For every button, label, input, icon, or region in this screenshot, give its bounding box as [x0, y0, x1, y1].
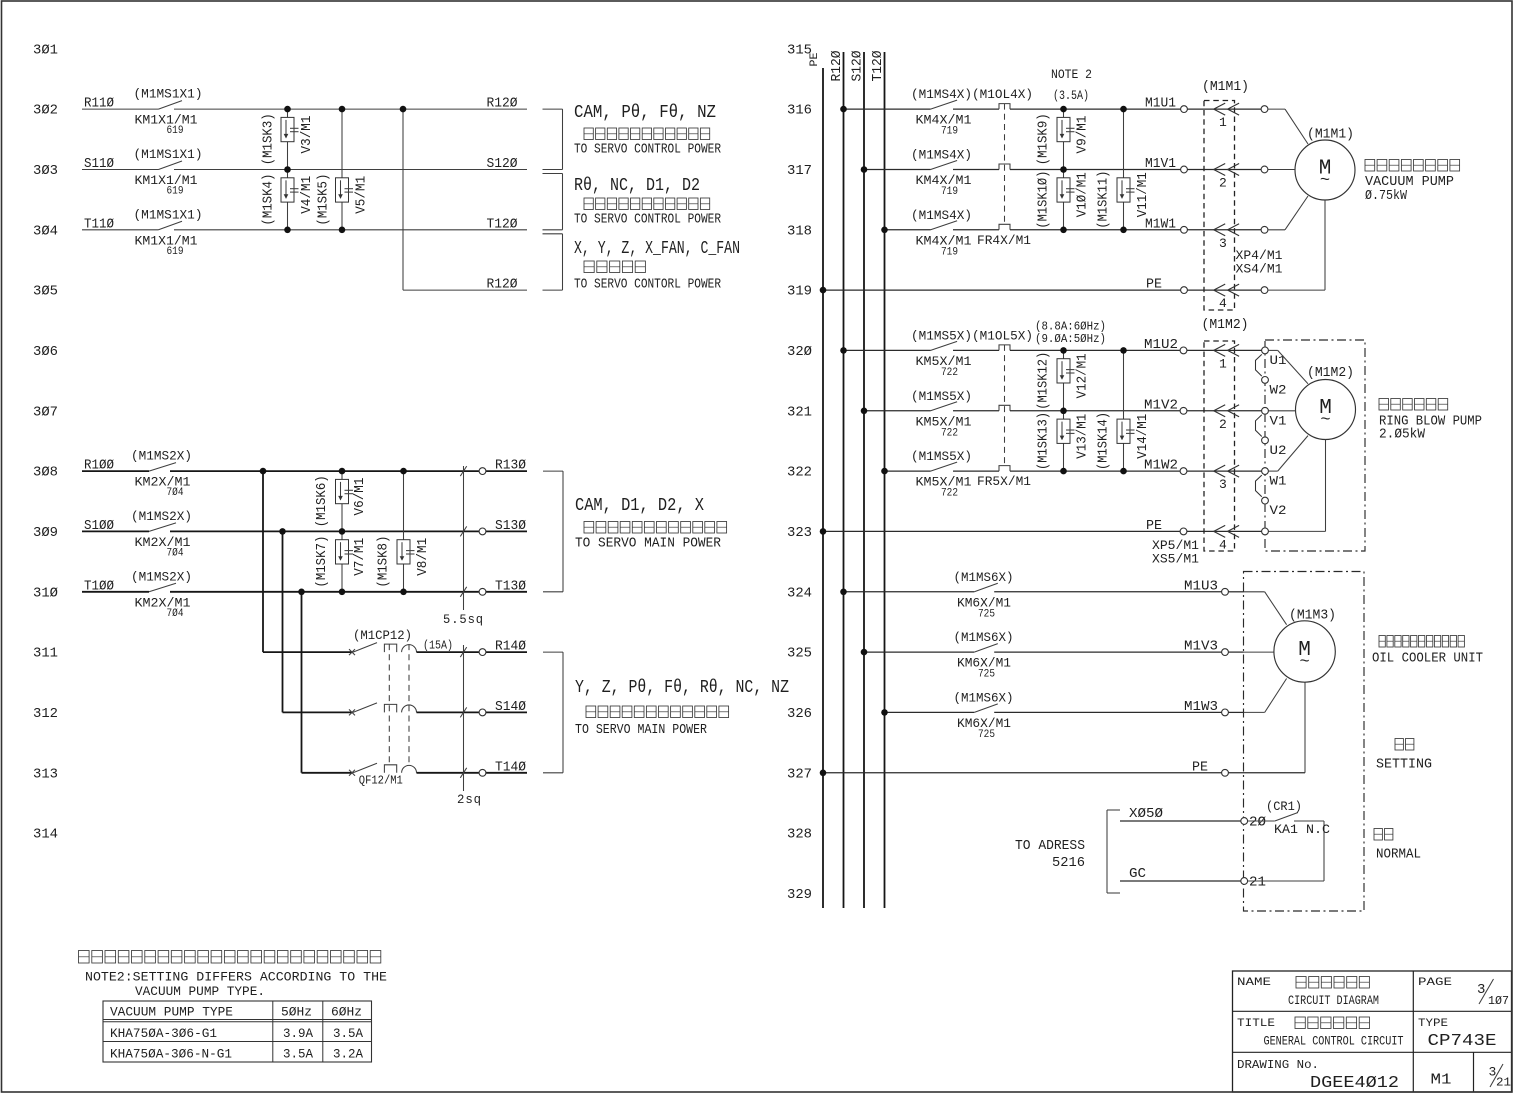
svg-text:CP743E: CP743E	[1428, 1031, 1497, 1050]
svg-text:TO SERVO CONTROL POWER: TO SERVO CONTROL POWER	[574, 143, 721, 158]
svg-text:(M1SK6): (M1SK6)	[315, 475, 330, 527]
svg-text:Ø.75kW: Ø.75kW	[1365, 189, 1408, 204]
svg-text:Y, Z, Pθ, Fθ, Rθ, NC, NZ: Y, Z, Pθ, Fθ, Rθ, NC, NZ	[575, 678, 789, 698]
svg-text:DGEE4Ø12: DGEE4Ø12	[1310, 1073, 1399, 1092]
svg-text:NOTE 2: NOTE 2	[1051, 67, 1092, 82]
svg-text:319: 319	[787, 284, 812, 300]
svg-text:VACUUM PUMP TYPE: VACUUM PUMP TYPE	[110, 1005, 233, 1020]
svg-text:TO SERVO CONTORL POWER: TO SERVO CONTORL POWER	[574, 278, 721, 293]
svg-text:(M1MS4X): (M1MS4X)	[911, 87, 972, 102]
svg-text:327: 327	[787, 766, 812, 782]
svg-text:(M1OL4X): (M1OL4X)	[972, 87, 1033, 102]
svg-text:3Ø2: 3Ø2	[33, 103, 58, 119]
svg-text:(M1MS5X): (M1MS5X)	[911, 328, 972, 343]
svg-text:318: 318	[787, 223, 812, 239]
svg-text:(M1SK4): (M1SK4)	[262, 174, 277, 226]
svg-text:21: 21	[1496, 1076, 1511, 1090]
svg-text:Rθ, NC, D1, D2: Rθ, NC, D1, D2	[574, 176, 700, 196]
svg-text:(M1SK12): (M1SK12)	[1037, 352, 1052, 410]
svg-text:324: 324	[787, 585, 812, 601]
svg-text:3Ø5: 3Ø5	[33, 284, 58, 300]
svg-text:3.5A: 3.5A	[283, 1046, 313, 1061]
svg-text:VACUUM PUMP TYPE.: VACUUM PUMP TYPE.	[135, 984, 265, 999]
svg-text:1: 1	[1219, 115, 1227, 130]
svg-text:5ØHz: 5ØHz	[281, 1005, 312, 1020]
svg-text:GENERAL CONTROL CIRCUIT: GENERAL CONTROL CIRCUIT	[1264, 1034, 1404, 1049]
svg-text:316: 316	[787, 103, 812, 119]
svg-text:321: 321	[787, 404, 812, 420]
svg-text:OIL COOLER UNIT: OIL COOLER UNIT	[1372, 652, 1483, 667]
svg-text:(M1MS5X): (M1MS5X)	[911, 389, 972, 404]
svg-text:R13Ø: R13Ø	[495, 458, 526, 474]
svg-text:VACUUM PUMP: VACUUM PUMP	[1365, 175, 1454, 190]
svg-text:S13Ø: S13Ø	[495, 518, 526, 534]
svg-text:(M1M2): (M1M2)	[1307, 366, 1354, 381]
svg-text:322: 322	[787, 465, 812, 481]
svg-text:3Ø7: 3Ø7	[33, 404, 58, 420]
svg-text:V9/M1: V9/M1	[1076, 116, 1091, 154]
svg-text:W2: W2	[1270, 382, 1287, 397]
svg-text:329: 329	[787, 887, 812, 903]
svg-text:~: ~	[1320, 172, 1330, 191]
svg-text:SETTING: SETTING	[1376, 758, 1432, 773]
svg-text:PE: PE	[1192, 760, 1208, 775]
svg-text:3.5A: 3.5A	[333, 1026, 363, 1041]
svg-text:(3.5A): (3.5A)	[1053, 88, 1089, 103]
svg-text:317: 317	[787, 163, 812, 179]
svg-text:NORMAL: NORMAL	[1376, 848, 1421, 863]
svg-text:V5/M1: V5/M1	[355, 176, 370, 214]
svg-text:325: 325	[787, 646, 812, 662]
svg-text:R14Ø: R14Ø	[495, 639, 526, 655]
svg-text:T12Ø: T12Ø	[487, 216, 518, 232]
svg-text:T14Ø: T14Ø	[495, 759, 526, 775]
svg-text:1Ø7: 1Ø7	[1488, 994, 1509, 1008]
svg-text:XS4/M1: XS4/M1	[1236, 262, 1283, 277]
svg-text:32Ø: 32Ø	[787, 344, 812, 360]
svg-text:R12Ø: R12Ø	[830, 51, 845, 82]
svg-text:313: 313	[33, 766, 58, 782]
svg-text:V1Ø/M1: V1Ø/M1	[1076, 172, 1091, 217]
svg-text:4: 4	[1219, 537, 1227, 552]
svg-text:1: 1	[1219, 356, 1227, 371]
svg-text:GC: GC	[1129, 867, 1146, 882]
svg-text:V14/M1: V14/M1	[1136, 414, 1151, 459]
svg-text:PE: PE	[1146, 519, 1162, 534]
svg-text:(M1MS2X): (M1MS2X)	[131, 509, 192, 524]
svg-text:M1U3: M1U3	[1184, 579, 1218, 594]
svg-text:(M1SK14): (M1SK14)	[1097, 412, 1112, 470]
svg-text:3Ø4: 3Ø4	[33, 223, 58, 239]
svg-text:314: 314	[33, 827, 58, 843]
svg-text:328: 328	[787, 827, 812, 843]
svg-text:(M1MS1X1): (M1MS1X1)	[134, 207, 203, 222]
svg-text:~: ~	[1299, 653, 1309, 672]
svg-text:QF12/M1: QF12/M1	[359, 774, 403, 787]
svg-text:619: 619	[167, 125, 184, 137]
svg-text:4: 4	[1219, 296, 1227, 311]
svg-text:(M1MS1X1): (M1MS1X1)	[134, 147, 203, 162]
svg-text:V13/M1: V13/M1	[1076, 414, 1091, 459]
svg-text:PE: PE	[1146, 278, 1162, 293]
svg-text:(M1M2): (M1M2)	[1202, 318, 1249, 333]
svg-text:TO SERVO CONTROL POWER: TO SERVO CONTROL POWER	[574, 213, 721, 228]
svg-text:3Ø3: 3Ø3	[33, 163, 58, 179]
svg-text:722: 722	[941, 488, 958, 500]
svg-text:2: 2	[1219, 176, 1227, 191]
svg-text:V7/M1: V7/M1	[353, 538, 368, 576]
svg-text:TO SERVO MAIN POWER: TO SERVO MAIN POWER	[575, 537, 721, 552]
svg-text:CAM, D1, D2, X: CAM, D1, D2, X	[575, 496, 704, 516]
svg-text:(M1OL5X): (M1OL5X)	[972, 328, 1033, 343]
svg-text:(15A): (15A)	[423, 639, 453, 653]
svg-text:NAME: NAME	[1237, 977, 1272, 989]
svg-text:3: 3	[1219, 477, 1227, 492]
svg-text:(M1MS4X): (M1MS4X)	[911, 208, 972, 223]
svg-text:(M1SK5): (M1SK5)	[317, 174, 332, 226]
svg-text:5216: 5216	[1052, 856, 1085, 871]
svg-text:T13Ø: T13Ø	[495, 578, 526, 594]
svg-text:(M1M1): (M1M1)	[1202, 80, 1249, 95]
svg-text:(M1MS4X): (M1MS4X)	[911, 148, 972, 163]
svg-text:(M1SK13): (M1SK13)	[1037, 412, 1052, 470]
svg-text:KHA75ØA-3Ø6-N-G1: KHA75ØA-3Ø6-N-G1	[110, 1046, 232, 1061]
svg-text:31Ø: 31Ø	[33, 585, 58, 601]
svg-text:M1V2: M1V2	[1144, 398, 1178, 413]
svg-text:U2: U2	[1270, 443, 1287, 458]
svg-text:722: 722	[941, 427, 958, 439]
svg-text:(M1SK7): (M1SK7)	[315, 536, 330, 588]
svg-text:(M1MS6X): (M1MS6X)	[954, 570, 1014, 585]
svg-text:(M1SK11): (M1SK11)	[1097, 171, 1112, 229]
svg-text:M1U1: M1U1	[1145, 97, 1176, 112]
svg-text:725: 725	[978, 669, 995, 681]
svg-text:(M1MS5X): (M1MS5X)	[911, 449, 972, 464]
svg-text:S12Ø: S12Ø	[487, 156, 518, 172]
svg-text:(CR1): (CR1)	[1266, 799, 1302, 814]
svg-text:7Ø4: 7Ø4	[167, 608, 184, 620]
svg-text:725: 725	[978, 729, 995, 741]
svg-text:T12Ø: T12Ø	[871, 51, 886, 82]
svg-text:312: 312	[33, 706, 58, 722]
svg-text:V1: V1	[1270, 413, 1287, 428]
svg-text:7Ø4: 7Ø4	[167, 547, 184, 559]
svg-text:W1: W1	[1270, 474, 1287, 489]
svg-text:3Ø8: 3Ø8	[33, 465, 58, 481]
svg-text:X, Y, Z, X_FAN, C_FAN: X, Y, Z, X_FAN, C_FAN	[574, 239, 740, 259]
svg-text:M1W3: M1W3	[1184, 700, 1218, 715]
svg-text:2: 2	[1219, 417, 1227, 432]
svg-text:CAM, Pθ, Fθ, NZ: CAM, Pθ, Fθ, NZ	[574, 103, 716, 123]
svg-text:21: 21	[1249, 876, 1266, 891]
svg-text:(M1SK3): (M1SK3)	[262, 113, 277, 165]
svg-text:722: 722	[941, 367, 958, 379]
svg-text:311: 311	[33, 646, 58, 662]
svg-text:V8/M1: V8/M1	[416, 538, 431, 576]
svg-text:U1: U1	[1270, 353, 1287, 368]
svg-text:M1W1: M1W1	[1145, 217, 1176, 232]
svg-text:XS5/M1: XS5/M1	[1152, 552, 1199, 567]
svg-text:TITLE: TITLE	[1237, 1018, 1275, 1030]
svg-text:(M1MS2X): (M1MS2X)	[131, 449, 192, 464]
svg-text:619: 619	[167, 186, 184, 198]
svg-text:M1U2: M1U2	[1144, 338, 1178, 353]
svg-text:PAGE: PAGE	[1418, 977, 1453, 989]
svg-text:(M1SK9): (M1SK9)	[1037, 113, 1052, 165]
svg-text:(M1MS6X): (M1MS6X)	[954, 690, 1014, 705]
svg-text:V11/M1: V11/M1	[1136, 172, 1151, 217]
svg-text:R12Ø: R12Ø	[487, 96, 518, 112]
svg-text:7Ø4: 7Ø4	[167, 487, 184, 499]
svg-text:M1W2: M1W2	[1144, 459, 1178, 474]
svg-text:719: 719	[941, 246, 958, 258]
svg-text:V2: V2	[1270, 503, 1287, 518]
svg-text:(M1M3): (M1M3)	[1289, 609, 1336, 624]
svg-text:N.C: N.C	[1306, 823, 1330, 837]
svg-text:S12Ø: S12Ø	[851, 51, 866, 82]
svg-text:3Ø6: 3Ø6	[33, 344, 58, 360]
svg-text:V4/M1: V4/M1	[300, 176, 315, 214]
svg-text:(M1MS2X): (M1MS2X)	[131, 569, 192, 584]
svg-text:3.9A: 3.9A	[283, 1026, 313, 1041]
svg-text:(M1MS6X): (M1MS6X)	[954, 630, 1014, 645]
svg-text:CIRCUIT DIAGRAM: CIRCUIT DIAGRAM	[1288, 993, 1379, 1008]
svg-text:(M1SK8): (M1SK8)	[377, 536, 392, 588]
svg-text:NOTE2:SETTING DIFFERS ACCORDIN: NOTE2:SETTING DIFFERS ACCORDING TO THE	[85, 970, 387, 985]
svg-text:TO SERVO MAIN POWER: TO SERVO MAIN POWER	[575, 723, 707, 738]
svg-text:(M1CP12): (M1CP12)	[353, 628, 412, 643]
svg-text:~: ~	[1320, 411, 1330, 430]
svg-text:M1V3: M1V3	[1184, 640, 1218, 655]
svg-text:719: 719	[941, 186, 958, 198]
svg-text:TYPE: TYPE	[1418, 1018, 1448, 1030]
svg-text:FR5X/M1: FR5X/M1	[977, 474, 1031, 489]
svg-text:PE: PE	[809, 52, 821, 66]
svg-text:KHA75ØA-3Ø6-G1: KHA75ØA-3Ø6-G1	[110, 1026, 217, 1041]
svg-text:FR4X/M1: FR4X/M1	[977, 233, 1031, 248]
svg-text:(9.ØA:5ØHz): (9.ØA:5ØHz)	[1035, 333, 1106, 346]
svg-text:V6/M1: V6/M1	[353, 478, 368, 516]
svg-text:3.2A: 3.2A	[333, 1046, 363, 1061]
svg-text:619: 619	[167, 246, 184, 258]
svg-text:XØ5Ø: XØ5Ø	[1129, 807, 1163, 822]
svg-text:5.5sq: 5.5sq	[443, 612, 484, 627]
svg-text:TO ADRESS: TO ADRESS	[1015, 839, 1085, 854]
svg-text:(M1M1): (M1M1)	[1307, 128, 1354, 143]
svg-text:6ØHz: 6ØHz	[331, 1005, 362, 1020]
svg-text:3Ø1: 3Ø1	[33, 42, 58, 58]
svg-text:3: 3	[1219, 236, 1227, 251]
svg-text:323: 323	[787, 525, 812, 541]
svg-text:KA1: KA1	[1274, 823, 1298, 837]
svg-text:M1: M1	[1431, 1072, 1452, 1089]
svg-text:(8.8A:6ØHz): (8.8A:6ØHz)	[1035, 321, 1106, 334]
svg-text:(M1SK1Ø): (M1SK1Ø)	[1037, 171, 1052, 229]
svg-text:2.Ø5kW: 2.Ø5kW	[1379, 428, 1426, 443]
svg-text:V3/M1: V3/M1	[300, 116, 315, 154]
svg-text:DRAWING No.: DRAWING No.	[1237, 1059, 1319, 1072]
svg-text:S14Ø: S14Ø	[495, 699, 526, 715]
svg-text:2sq: 2sq	[457, 792, 482, 807]
svg-text:V12/M1: V12/M1	[1076, 353, 1091, 398]
svg-text:(M1MS1X1): (M1MS1X1)	[134, 87, 203, 102]
svg-text:2Ø: 2Ø	[1249, 816, 1266, 831]
svg-text:719: 719	[941, 126, 958, 138]
svg-text:326: 326	[787, 706, 812, 722]
svg-text:725: 725	[978, 608, 995, 620]
svg-text:M1V1: M1V1	[1145, 157, 1176, 172]
svg-text:3Ø9: 3Ø9	[33, 525, 58, 541]
